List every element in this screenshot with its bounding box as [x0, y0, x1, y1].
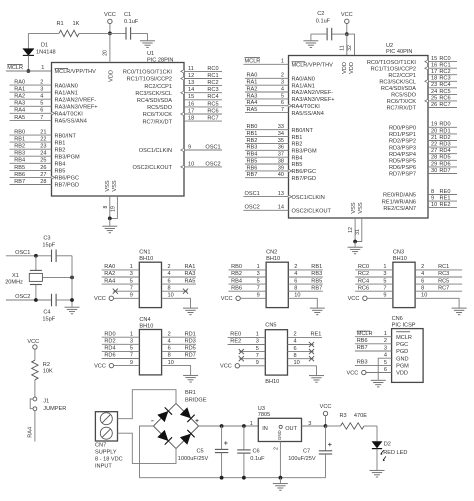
svg-text:16: 16 — [188, 101, 194, 107]
CN2 pin 2 net RB1 wire — [288, 269, 323, 271]
svg-text:IN: IN — [262, 426, 268, 432]
svg-text:23: 23 — [431, 82, 437, 88]
U1 pin 17 net RC6 wire — [184, 113, 222, 115]
CN5 pin 5 unused — [239, 351, 265, 353]
svg-text:RC7: RC7 — [439, 102, 450, 108]
svg-text:RA4: RA4 — [27, 427, 33, 438]
resistor R1 — [59, 30, 79, 36]
U1 pin 27 net RB6 wire — [10, 176, 52, 178]
CN2 pin 6 net RB5 wire — [288, 283, 323, 285]
svg-text:RB3/PGM: RB3/PGM — [292, 149, 318, 155]
U1 pin 10 net OSC2 wire — [184, 166, 222, 168]
svg-text:RD1: RD1 — [439, 128, 450, 134]
node VCC-C1 junction — [108, 32, 112, 36]
svg-text:4: 4 — [421, 271, 424, 277]
U1 pin 4 net RA2 wire — [10, 98, 52, 100]
wire — [56, 299, 72, 301]
svg-text:RD5/PSP5: RD5/PSP5 — [389, 159, 416, 165]
svg-text:3: 3 — [130, 271, 133, 277]
capacitor C7 100uF — [325, 426, 327, 451]
svg-text:4: 4 — [294, 339, 297, 345]
svg-text:PGD: PGD — [396, 349, 408, 355]
svg-text:OSC1: OSC1 — [15, 250, 30, 256]
svg-text:2: 2 — [168, 331, 171, 337]
U2 pin 23 net RC4 wire — [428, 87, 457, 89]
svg-text:6: 6 — [281, 100, 284, 106]
CN5 pin 2 net RE1 wire — [288, 336, 323, 338]
svg-text:RD2/PSP2: RD2/PSP2 — [389, 139, 416, 145]
node OSC1-X1 junction — [34, 254, 38, 258]
svg-text:RC3/SCK/SCL: RC3/SCK/SCL — [379, 80, 416, 86]
U2 pin 13 net OSC1 wire — [243, 196, 288, 198]
svg-text:1000uF/25V: 1000uF/25V — [178, 456, 209, 462]
svg-text:RA4: RA4 — [14, 108, 25, 114]
U1 VSS pins 8 19 — [109, 196, 111, 218]
svg-text:1: 1 — [257, 264, 260, 270]
svg-text:27: 27 — [40, 172, 46, 178]
svg-text:VCC: VCC — [220, 364, 232, 370]
svg-text:8: 8 — [421, 285, 424, 291]
svg-text:19: 19 — [431, 122, 437, 128]
wire — [56, 255, 72, 257]
U1 pin 16 net RC5 wire — [184, 106, 222, 108]
svg-text:2: 2 — [384, 338, 387, 344]
svg-text:RB4: RB4 — [14, 158, 25, 164]
svg-text:5: 5 — [384, 360, 387, 366]
U1 clock pin markers — [52, 112, 55, 115]
CN4 pin 7 net RD6 wire — [102, 358, 140, 360]
connector CN1 BH10 body — [139, 262, 161, 307]
CN2 pin 9 VCC — [236, 296, 240, 300]
svg-text:RC7/RX/DT: RC7/RX/DT — [142, 119, 172, 125]
CN4 pin 6 net RD5 wire — [162, 350, 197, 352]
U2 pin 3 net RA1 wire — [245, 84, 289, 86]
svg-text:RB7: RB7 — [311, 285, 322, 291]
svg-text:22: 22 — [40, 137, 46, 143]
svg-text:RA3: RA3 — [185, 271, 196, 277]
svg-text:7805: 7805 — [258, 412, 270, 418]
U2 pin 36 net RB3 wire — [245, 149, 289, 151]
svg-text:RB6: RB6 — [357, 338, 368, 344]
U2 pin 38 net RB5 wire — [245, 163, 289, 165]
net OSC2 wire (crystal) — [6, 299, 52, 301]
svg-text:25: 25 — [431, 95, 437, 101]
svg-text:RA5/SS/AN4: RA5/SS/AN4 — [55, 119, 87, 125]
svg-text:9: 9 — [383, 293, 386, 299]
CN1 pin 9 VCC — [109, 296, 113, 300]
U1 pin 9 net OSC1 wire — [184, 149, 222, 151]
svg-text:RB4: RB4 — [231, 278, 242, 284]
svg-text:12: 12 — [348, 227, 354, 233]
CN1 pin 2 net RA1 wire — [162, 269, 197, 271]
svg-text:R3: R3 — [340, 413, 347, 419]
svg-text:RB1: RB1 — [55, 140, 66, 146]
wire — [79, 32, 110, 34]
CN7 pin 1 wire to bridge AC1 — [118, 390, 177, 419]
U2 VDD pins 11 32 — [346, 34, 348, 55]
svg-text:RB3: RB3 — [14, 151, 25, 157]
CN5 pin 10 GND — [288, 366, 317, 375]
svg-text:RE0/RD/AN5: RE0/RD/AN5 — [383, 193, 416, 199]
node X1 case junction — [70, 276, 74, 280]
svg-text:RC5: RC5 — [439, 89, 450, 95]
U2 pin 20 net RD1 wire — [428, 133, 457, 135]
svg-text:38: 38 — [278, 158, 284, 164]
wire bridge plus rail — [199, 425, 259, 427]
svg-text:RB4: RB4 — [292, 155, 303, 161]
CN7 pin 2 wire to bridge AC2 — [118, 433, 177, 463]
svg-text:RB7/PGD: RB7/PGD — [55, 183, 80, 189]
svg-text:C5: C5 — [197, 448, 204, 454]
svg-text:VDD: VDD — [109, 70, 115, 82]
node OSC2 rail junction — [70, 298, 74, 302]
svg-text:RB6: RB6 — [14, 172, 25, 178]
svg-text:RC2: RC2 — [439, 69, 450, 75]
svg-text:RB5: RB5 — [55, 169, 66, 175]
CN3 pin 5 net RC4 wire — [355, 283, 393, 285]
svg-text:21: 21 — [431, 135, 437, 141]
svg-text:RD1: RD1 — [185, 331, 196, 337]
svg-text:VSS: VSS — [105, 180, 111, 191]
CN4 pin 3 net RD2 wire — [102, 343, 140, 345]
U2 pin 26 net RC7 wire — [428, 107, 457, 109]
svg-text:7: 7 — [256, 353, 259, 359]
power net VCC (CN6) — [362, 370, 366, 374]
svg-text:6: 6 — [384, 367, 387, 373]
svg-text:VCC: VCC — [27, 339, 39, 345]
U1 pin 6 net RA4 wire — [10, 112, 52, 114]
svg-text:15: 15 — [188, 94, 194, 100]
U1 VDD pin 20 — [109, 33, 111, 62]
svg-text:4: 4 — [384, 353, 387, 359]
svg-text:RC0/T1OSO/T1CKI: RC0/T1OSO/T1CKI — [367, 60, 417, 66]
svg-text:C3: C3 — [43, 236, 50, 242]
U2 pin 34 net RB1 wire — [245, 136, 289, 138]
CN5 pin 4 unused — [288, 344, 314, 346]
svg-text:0.1uF: 0.1uF — [250, 456, 265, 462]
svg-text:11: 11 — [188, 66, 194, 72]
U2 pin 9 net RE1 wire — [428, 200, 457, 202]
svg-text:27: 27 — [431, 148, 437, 154]
CN4 pin 4 net RD3 wire — [162, 343, 197, 345]
CN2 pin 4 net RB3 wire — [288, 276, 323, 278]
svg-text:RE0: RE0 — [230, 332, 241, 338]
svg-text:RC5/SDO: RC5/SDO — [391, 93, 417, 99]
svg-text:2: 2 — [273, 447, 279, 450]
svg-text:RC5: RC5 — [207, 101, 218, 107]
svg-text:10: 10 — [188, 161, 194, 167]
svg-text:1: 1 — [130, 264, 133, 270]
ground (U1 VSS) — [102, 225, 117, 227]
svg-text:0.1uF: 0.1uF — [316, 18, 331, 24]
svg-text:CN6: CN6 — [392, 316, 403, 322]
wire — [326, 425, 341, 427]
svg-text:10K: 10K — [43, 369, 53, 375]
svg-text:RD3: RD3 — [439, 142, 450, 148]
svg-text:4: 4 — [294, 271, 297, 277]
svg-text:39: 39 — [278, 165, 284, 171]
svg-text:D2: D2 — [384, 442, 391, 448]
U3 pin 2 GND wire — [279, 442, 281, 478]
svg-text:34: 34 — [278, 131, 284, 137]
U2 pin 37 net RB4 wire — [245, 156, 289, 158]
U2 pin 18 net RC3 wire — [428, 80, 457, 82]
CN2 pin 8 net RB7 wire — [288, 290, 323, 292]
svg-text:PIC 40PIN: PIC 40PIN — [386, 49, 412, 55]
svg-text:RB0/INT: RB0/INT — [292, 128, 314, 134]
svg-text:VSS: VSS — [351, 202, 357, 213]
svg-text:U3: U3 — [258, 406, 265, 412]
svg-text:13: 13 — [188, 80, 194, 86]
svg-text:20: 20 — [103, 50, 109, 56]
svg-text:RB4: RB4 — [247, 152, 258, 158]
svg-text:VDD: VDD — [342, 62, 348, 74]
svg-text:RE0: RE0 — [440, 189, 451, 195]
svg-text:RB5: RB5 — [311, 278, 322, 284]
svg-text:OSC2: OSC2 — [15, 294, 30, 300]
svg-text:9: 9 — [130, 360, 133, 366]
svg-text:18: 18 — [431, 76, 437, 82]
regulator U3 7805 body — [258, 418, 301, 441]
svg-text:U2: U2 — [386, 43, 393, 49]
svg-text:19: 19 — [110, 206, 116, 212]
svg-text:C4: C4 — [43, 310, 50, 316]
svg-text:C7: C7 — [303, 448, 310, 454]
svg-text:MCLR: MCLR — [357, 331, 373, 337]
gnd rail wire — [140, 477, 326, 479]
svg-text:9: 9 — [256, 360, 259, 366]
svg-text:24: 24 — [431, 89, 437, 95]
svg-text:RA1/AN1: RA1/AN1 — [55, 90, 78, 96]
U1 pin 12 net RC1 wire — [184, 78, 222, 80]
svg-text:RB2: RB2 — [14, 144, 25, 150]
connector CN6 PIC ICSP body — [392, 329, 424, 383]
U2 pin 8 net RE0 wire — [428, 194, 457, 196]
svg-text:2: 2 — [294, 264, 297, 270]
CN1 pin 8 unused — [162, 290, 188, 292]
svg-text:RC4: RC4 — [207, 94, 218, 100]
CN3 pin 1 net RC0 wire — [355, 269, 393, 271]
svg-text:RC6: RC6 — [358, 285, 369, 291]
CN5 pin 9 VCC — [235, 364, 239, 368]
svg-text:RE1: RE1 — [440, 196, 451, 202]
svg-text:RB3: RB3 — [357, 360, 368, 366]
svg-text:SUPPLY: SUPPLY — [95, 449, 117, 455]
svg-text:15pF: 15pF — [42, 243, 55, 249]
svg-text:14: 14 — [278, 205, 284, 211]
svg-text:RB1: RB1 — [311, 264, 322, 270]
svg-text:2: 2 — [168, 264, 171, 270]
U2 pin 17 net RC2 wire — [428, 74, 457, 76]
connector CN4 BH10 body — [139, 330, 161, 375]
svg-text:OSC2/CLKOUT: OSC2/CLKOUT — [292, 209, 332, 215]
svg-text:RE2/CS/AN7: RE2/CS/AN7 — [383, 206, 416, 212]
svg-text:RC4/SDI/SDA: RC4/SDI/SDA — [137, 98, 172, 104]
svg-text:RB3: RB3 — [311, 271, 322, 277]
net OSC1 wire (crystal) — [6, 255, 52, 257]
svg-text:7: 7 — [257, 285, 260, 291]
svg-text:RA2: RA2 — [14, 94, 25, 100]
svg-text:RC5: RC5 — [438, 278, 449, 284]
svg-text:RC0/T1OSO/T1CKI: RC0/T1OSO/T1CKI — [123, 70, 173, 76]
svg-text:1: 1 — [256, 332, 259, 338]
svg-text:RB1: RB1 — [292, 135, 303, 141]
svg-text:MCLR: MCLR — [7, 65, 23, 71]
svg-text:RB0: RB0 — [231, 264, 242, 270]
svg-text:7: 7 — [281, 107, 284, 113]
svg-text:17: 17 — [431, 69, 437, 75]
svg-text:RC1: RC1 — [207, 73, 218, 79]
jumper J1 — [33, 397, 37, 401]
svg-text:RD5: RD5 — [439, 155, 450, 161]
node U3 gnd rail junction — [279, 476, 283, 480]
svg-text:6: 6 — [294, 346, 297, 352]
svg-text:VCC: VCC — [94, 363, 106, 369]
svg-text:1: 1 — [130, 331, 133, 337]
svg-text:RB3: RB3 — [247, 145, 258, 151]
U2 pin 19 net RD0 wire — [428, 126, 457, 128]
svg-text:RC3: RC3 — [438, 271, 449, 277]
svg-text:RC4/SDI/SDA: RC4/SDI/SDA — [381, 86, 416, 92]
IC U1 PIC 28PIN body — [52, 63, 185, 197]
svg-text:RE2: RE2 — [230, 339, 241, 345]
U2 pin 24 net RC5 wire — [428, 93, 457, 95]
svg-text:1: 1 — [250, 421, 253, 427]
svg-text:RB2: RB2 — [231, 271, 242, 277]
svg-text:VCC: VCC — [346, 370, 358, 376]
connector CN2 BH10 body — [266, 262, 288, 307]
svg-text:1: 1 — [383, 264, 386, 270]
svg-text:RC2: RC2 — [358, 271, 369, 277]
svg-text:RC6/TX/CK: RC6/TX/CK — [387, 99, 416, 105]
svg-text:10: 10 — [168, 360, 174, 366]
svg-text:8: 8 — [431, 189, 434, 195]
wire (osc right rail) — [71, 256, 73, 307]
svg-text:GND: GND — [277, 430, 282, 440]
svg-text:1: 1 — [41, 65, 44, 71]
svg-text:12: 12 — [188, 73, 194, 79]
U1 pin 14 net RC3 wire — [184, 92, 222, 94]
CN3 pin 6 net RC5 wire — [415, 283, 462, 285]
svg-text:RC0: RC0 — [439, 56, 450, 62]
svg-text:RA5/SS/AN4: RA5/SS/AN4 — [292, 111, 324, 117]
svg-text:RD0: RD0 — [439, 122, 450, 128]
svg-text:470E: 470E — [354, 413, 367, 419]
U2 pin 15 net RC0 wire — [428, 61, 457, 63]
svg-text:RB4: RB4 — [55, 162, 66, 168]
svg-text:OSC2/CLKOUT: OSC2/CLKOUT — [133, 165, 173, 171]
svg-text:C6: C6 — [253, 448, 260, 454]
svg-text:6: 6 — [168, 278, 171, 284]
CN1 pin 4 net RA3 wire — [162, 276, 197, 278]
svg-text:RA2/AN2/VREF-: RA2/AN2/VREF- — [55, 97, 97, 103]
svg-text:CN1: CN1 — [139, 250, 150, 256]
svg-text:7: 7 — [130, 285, 133, 291]
svg-text:16: 16 — [431, 63, 437, 69]
svg-text:3: 3 — [130, 339, 133, 345]
svg-text:10: 10 — [168, 293, 174, 299]
U1 pin 13 net RC2 wire — [184, 85, 222, 87]
CN1 pin 6 net RA5 wire — [162, 283, 197, 285]
svg-text:PIC 28PIN: PIC 28PIN — [147, 57, 173, 63]
svg-text:RC7: RC7 — [207, 116, 218, 122]
svg-text:RA0/AN0: RA0/AN0 — [55, 83, 78, 89]
svg-text:RE1: RE1 — [311, 332, 322, 338]
svg-text:MCLR/VPP/THV: MCLR/VPP/THV — [55, 69, 97, 75]
svg-text:20MHz: 20MHz — [5, 280, 23, 286]
svg-text:MCLR: MCLR — [396, 335, 412, 341]
node VCC-C2 junction — [345, 32, 349, 36]
svg-text:RA4/T0CKI: RA4/T0CKI — [55, 112, 84, 118]
svg-text:11: 11 — [340, 45, 346, 50]
U2 pin 7 net RA5 wire — [245, 112, 289, 114]
U2 pin 35 net RB2 wire — [245, 142, 289, 144]
CN1 pin 10 GND — [162, 298, 191, 307]
svg-text:30: 30 — [431, 168, 437, 174]
svg-text:17: 17 — [188, 108, 194, 114]
svg-text:JUMPER: JUMPER — [43, 406, 66, 412]
svg-text:RC1: RC1 — [438, 264, 449, 270]
svg-text:RA4/T0CKI: RA4/T0CKI — [292, 104, 321, 110]
svg-text:RD6: RD6 — [439, 161, 450, 167]
CN2 pin 7 net RB6 wire — [228, 290, 266, 292]
svg-text:BR1: BR1 — [185, 390, 196, 396]
svg-text:RB6: RB6 — [231, 285, 242, 291]
svg-text:CN7: CN7 — [95, 442, 106, 448]
CN3 pin 4 net RC3 wire — [415, 276, 462, 278]
CN3 pin 10 GND — [415, 298, 459, 307]
CN3 pin 7 net RC6 wire — [355, 290, 393, 292]
svg-text:OUT: OUT — [285, 426, 297, 432]
svg-text:RC5/SDO: RC5/SDO — [147, 105, 173, 111]
svg-text:10: 10 — [294, 360, 300, 366]
U1 pin 28 net RB7 wire — [10, 184, 52, 186]
net RA4 wire — [34, 411, 36, 442]
CN4 pin 10 GND — [162, 366, 191, 375]
CN1 pin 5 net RA4 wire — [102, 283, 140, 285]
U1 pin 26 net RB5 wire — [10, 169, 52, 171]
svg-text:6: 6 — [421, 278, 424, 284]
svg-text:RA4: RA4 — [104, 278, 115, 284]
svg-text:RED LED: RED LED — [383, 450, 407, 456]
svg-text:RD6: RD6 — [104, 353, 115, 359]
U1 pin 15 net RC4 wire — [184, 99, 222, 101]
svg-text:PIC ICSP: PIC ICSP — [392, 322, 416, 328]
svg-text:7: 7 — [130, 353, 133, 359]
svg-text:VDD: VDD — [349, 62, 355, 74]
svg-text:RC3: RC3 — [439, 76, 450, 82]
svg-text:6: 6 — [294, 278, 297, 284]
svg-text:14: 14 — [188, 87, 194, 93]
U2 pin 2 net RA0 wire — [245, 77, 289, 79]
wire — [376, 449, 378, 470]
wire — [28, 32, 59, 34]
svg-text:RA4: RA4 — [247, 100, 258, 106]
svg-text:BRIDGE: BRIDGE — [185, 397, 207, 403]
CN2 pin 3 net RB2 wire — [228, 276, 266, 278]
connector CN7 terminal block — [95, 412, 117, 441]
power net VCC (U1) — [108, 19, 112, 23]
svg-text:100uF/25V: 100uF/25V — [288, 456, 316, 462]
U1 pin 5 net RA3 wire — [10, 105, 52, 107]
CN1 pin 3 net RA2 wire — [102, 276, 140, 278]
svg-text:RD0: RD0 — [104, 331, 115, 337]
svg-text:9: 9 — [257, 293, 260, 299]
svg-text:24: 24 — [40, 151, 46, 157]
svg-text:RC6/TX/CK: RC6/TX/CK — [143, 112, 172, 118]
svg-text:RA2: RA2 — [247, 86, 258, 92]
svg-text:RD2: RD2 — [439, 135, 450, 141]
